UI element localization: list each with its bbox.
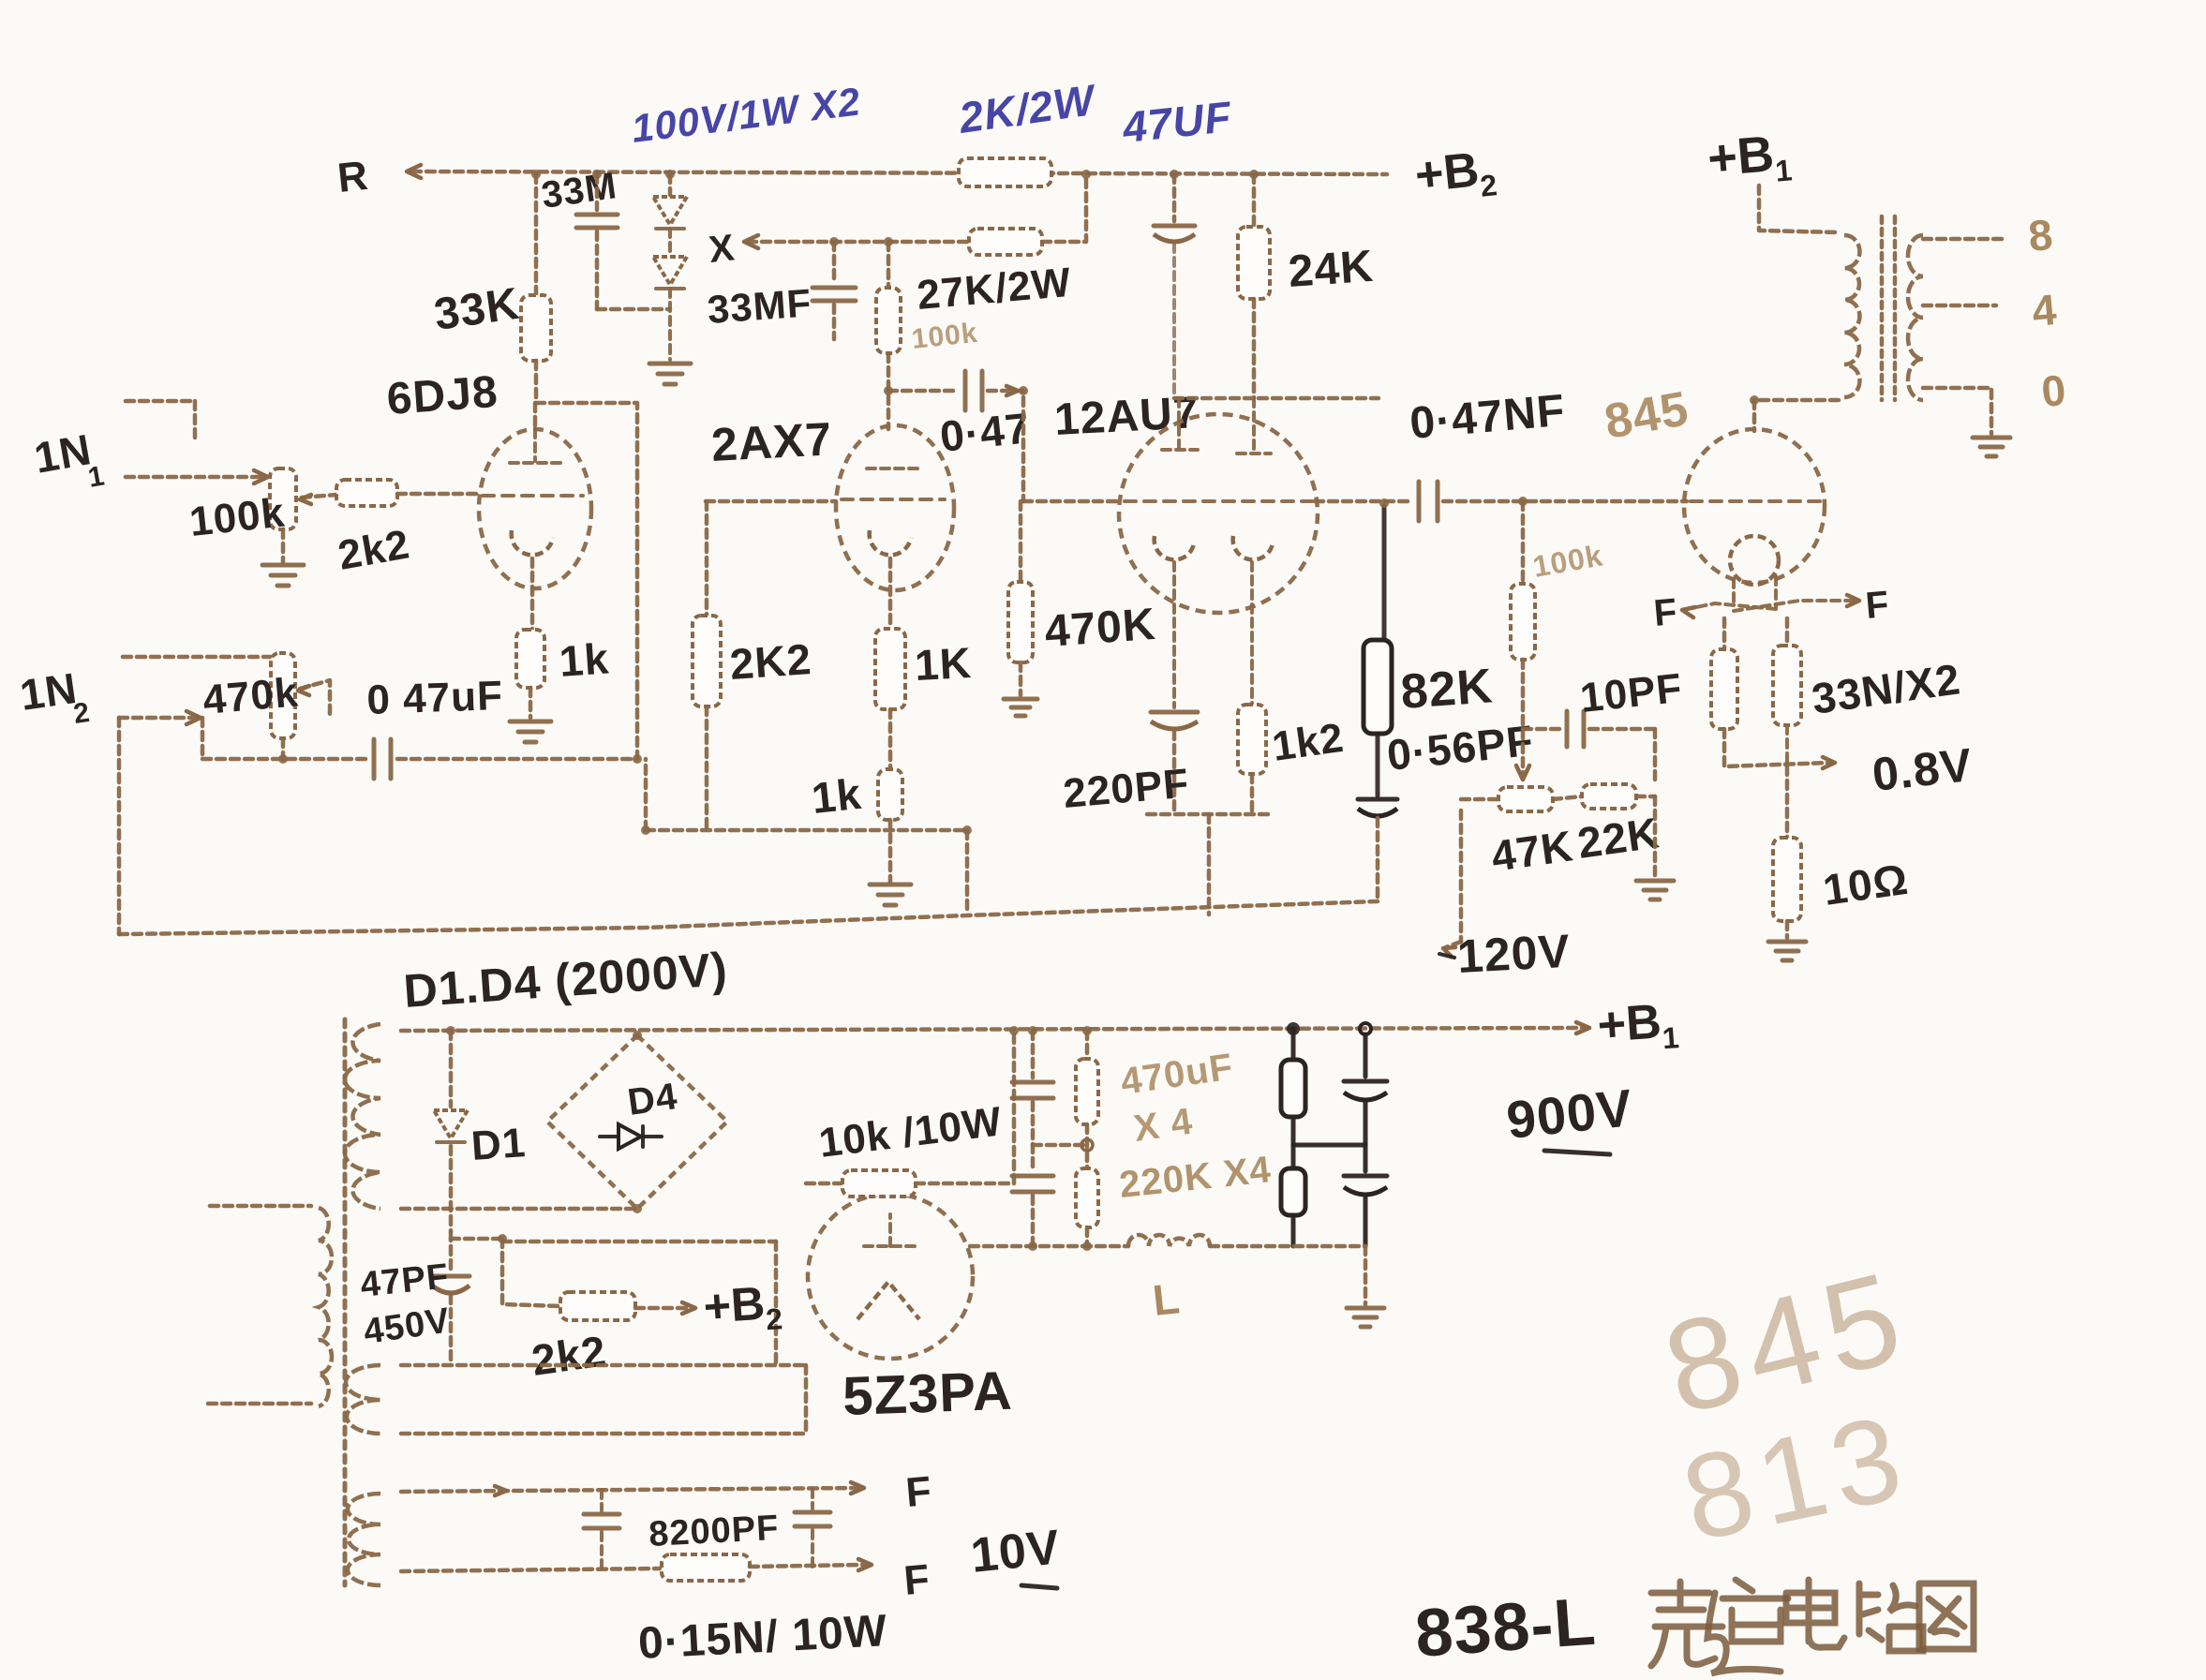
svg-text:L: L bbox=[1151, 1273, 1183, 1325]
wire 6DJ8 cathode bbox=[530, 558, 535, 630]
wire plate node 12AX7 bbox=[887, 353, 891, 429]
wire pot wiper to 2k2 bbox=[302, 495, 336, 498]
12AU7 cathode left bbox=[1155, 536, 1194, 559]
wire mains top bbox=[210, 1204, 311, 1209]
capacitor 33M bbox=[595, 174, 600, 210]
wire 12AU7 grid entry bbox=[1023, 499, 1121, 504]
diode D-b bbox=[653, 257, 687, 285]
capacitor 0.47uF input bbox=[372, 739, 377, 779]
bridge rectifier D1-D4 bbox=[547, 1035, 727, 1209]
845 cathode circle bbox=[1730, 536, 1779, 585]
junction dots on buses bbox=[531, 170, 541, 179]
terminal IN2 bbox=[123, 655, 270, 660]
resistor 2k2 series bbox=[336, 480, 397, 506]
svg-text:470k: 470k bbox=[201, 669, 301, 723]
ground 6DJ8 cathode bbox=[510, 720, 551, 724]
svg-text:10V: 10V bbox=[968, 1520, 1063, 1583]
svg-text:1k: 1k bbox=[558, 633, 611, 686]
diode D-a bbox=[653, 197, 687, 225]
svg-text:2k2: 2k2 bbox=[529, 1326, 609, 1385]
svg-text:8200PF: 8200PF bbox=[648, 1509, 780, 1554]
wire 470k bottom to input wire bbox=[281, 738, 286, 759]
845 grid dashes bbox=[1691, 499, 1822, 503]
potentiometer 100K input bbox=[270, 468, 296, 529]
wire 33K branch from bus bbox=[534, 174, 539, 295]
resistor 2K2 grid bbox=[693, 616, 721, 706]
capacitor 0.56PF black bbox=[1376, 734, 1380, 795]
terminal IN1 bbox=[126, 399, 195, 404]
capacitor 220PF bbox=[1151, 710, 1198, 715]
wire 0.56PF to ground bus bbox=[1376, 818, 1380, 901]
diode inside bridge bbox=[619, 1124, 641, 1149]
wire 5V loop bottom bbox=[401, 1432, 806, 1436]
12AX7 grid dashes bbox=[842, 498, 945, 501]
resistor 220K black chain C bbox=[1287, 1022, 1300, 1035]
wire HV bottom to bridge bbox=[401, 1207, 635, 1212]
wire hum bus to 0.8V bbox=[1724, 729, 1829, 766]
wire 12AX7 cathode chain bbox=[888, 558, 893, 629]
wire ground return bus long bbox=[119, 901, 1378, 934]
resistor 1K lower bbox=[878, 769, 902, 820]
wire cathode bus bbox=[646, 828, 967, 833]
wire tie A-B bbox=[1033, 1143, 1087, 1148]
wire 47uF down to plate rail bbox=[1172, 244, 1176, 398]
svg-text:F: F bbox=[902, 1556, 932, 1604]
svg-text:1N: 1N bbox=[17, 663, 80, 720]
svg-text:1K: 1K bbox=[914, 638, 973, 690]
845 plate lead bbox=[1752, 400, 1757, 431]
svg-text:33MF: 33MF bbox=[706, 280, 812, 332]
inductor mains primary bbox=[319, 1208, 332, 1406]
svg-text:F: F bbox=[904, 1468, 934, 1516]
svg-text:X: X bbox=[707, 227, 737, 271]
svg-text:R: R bbox=[335, 153, 371, 201]
svg-text:D4: D4 bbox=[625, 1076, 680, 1123]
wire filament top F bbox=[401, 1488, 858, 1492]
5Z3 filament bbox=[857, 1282, 919, 1319]
wire 470k wiper bbox=[300, 680, 330, 714]
wire 10K to filter bbox=[916, 1031, 1014, 1183]
wire plate to coupling cap 0.47 bbox=[888, 389, 958, 394]
wire 27K to bus riser bbox=[1042, 174, 1086, 242]
resistor 100K 12AX7 plate load bbox=[887, 242, 891, 288]
resistor 10R cathode sense bbox=[1785, 766, 1790, 838]
6DJ8 plate bbox=[533, 429, 537, 461]
resistor 33K bbox=[521, 295, 551, 361]
inductor choke L bbox=[1128, 1235, 1210, 1246]
svg-text:F: F bbox=[1652, 591, 1679, 634]
wire cap to grid-feed node bbox=[397, 757, 637, 762]
inductor OPT primary bbox=[1844, 235, 1859, 397]
wire 47K left to -120V bbox=[1461, 797, 1498, 802]
svg-text:1N: 1N bbox=[31, 424, 96, 483]
wire pot down arrow bbox=[1521, 660, 1526, 774]
resistor 470K grid leak bbox=[1019, 501, 1023, 582]
12AX7 plate bar bbox=[867, 467, 923, 470]
inductor HV secondary bbox=[345, 1024, 380, 1209]
wire bus to ground bbox=[1364, 1246, 1368, 1304]
wire 1K to ground bbox=[888, 820, 893, 882]
wire cap to 12AU7 grid bbox=[988, 391, 1023, 501]
845 filament leads bbox=[1732, 579, 1736, 607]
inductor filament winding bbox=[348, 1494, 380, 1585]
wire IN2 shield down bbox=[117, 718, 122, 934]
wire pot to ground bbox=[281, 529, 286, 562]
wire cathode local bus bbox=[1147, 812, 1270, 817]
ground 845 cathode bbox=[1768, 940, 1806, 944]
resistor 22K bbox=[1553, 796, 1582, 799]
wire 12AU7 plate rail bbox=[1174, 396, 1379, 401]
resistor 100K feedback pot bbox=[1521, 501, 1526, 584]
wire plate node to grid-feed vertical bbox=[536, 403, 637, 759]
ground 470K bbox=[1019, 662, 1023, 695]
wire 22K to ground bbox=[1636, 795, 1655, 799]
wire 12AX7 grid feed bbox=[706, 499, 836, 504]
svg-text:5Z3PA: 5Z3PA bbox=[842, 1360, 1013, 1427]
svg-text:6DJ8: 6DJ8 bbox=[385, 367, 499, 424]
resistor 27K/2W lower bbox=[969, 229, 1042, 255]
wire plate leads bbox=[1177, 398, 1181, 448]
svg-text:D1: D1 bbox=[470, 1120, 528, 1169]
svg-text:2K2: 2K2 bbox=[728, 634, 813, 689]
wire tap 8 bbox=[1923, 237, 2007, 242]
resistor 33R hum left bbox=[1722, 618, 1727, 649]
wire 2k2 branch bbox=[502, 1239, 560, 1306]
svg-text:0·47: 0·47 bbox=[938, 403, 1033, 461]
6DJ8 grid dashes bbox=[483, 494, 583, 498]
resistor 33R hum right bbox=[1785, 618, 1790, 646]
wire cathode right to 1k2 bbox=[1250, 562, 1254, 705]
wire 2K2 to bus886 bbox=[705, 706, 709, 828]
ground OPT secondary bbox=[1973, 436, 2010, 440]
12AU7 cathode right bbox=[1233, 536, 1273, 559]
wire 33K to 6DJ8 plate bbox=[534, 361, 539, 403]
diode D1 branch bbox=[449, 1031, 454, 1107]
svg-text:8: 8 bbox=[2026, 210, 2055, 260]
svg-text:4: 4 bbox=[2030, 285, 2059, 335]
tube 12AU7 bbox=[1119, 414, 1318, 613]
capacitor 47uF from bus bbox=[1172, 174, 1177, 221]
ground 100K pot bbox=[262, 563, 304, 568]
6DJ8 cathode bbox=[512, 530, 553, 555]
ground PSU bbox=[1347, 1306, 1384, 1311]
resistor 1K cathode bbox=[875, 629, 905, 709]
wire IN2 to input wire bbox=[201, 718, 205, 759]
svg-text:F: F bbox=[1864, 584, 1891, 627]
wire 5V loop right bbox=[804, 1365, 809, 1434]
wire D1 node right bbox=[451, 1237, 502, 1241]
node R output / wire top bus +B2 bbox=[412, 171, 1387, 174]
capacitor 47PF 450V bbox=[449, 1232, 454, 1271]
wire 10R to ground bbox=[1785, 921, 1790, 938]
svg-text:0 47uF: 0 47uF bbox=[366, 673, 504, 723]
wire plate lead 6DJ8 bbox=[533, 403, 538, 429]
svg-text:120V: 120V bbox=[1456, 925, 1573, 983]
wire to 5Z3 plate line bbox=[502, 1240, 776, 1244]
filament arrow left F bbox=[1687, 603, 1776, 609]
resistor 2k2 bias bbox=[560, 1292, 635, 1320]
resistor 1k2 bbox=[1238, 705, 1266, 774]
divider 82K black bbox=[1382, 506, 1387, 640]
capacitor 8200PF left bbox=[600, 1490, 604, 1510]
wire input coupling 0.47uF bbox=[202, 757, 367, 762]
wire PSU lower bus bbox=[970, 1244, 1128, 1249]
svg-text:1k: 1k bbox=[810, 769, 864, 823]
filament arrow right F bbox=[1734, 601, 1854, 611]
svg-text:0: 0 bbox=[2039, 365, 2068, 416]
wire arrow +B2 out bbox=[635, 1306, 690, 1311]
capacitor 33MF bbox=[832, 242, 837, 283]
capacitor 470uF chain A bbox=[1031, 1031, 1036, 1078]
ground 12AX7 cathode bbox=[870, 883, 911, 887]
node X / wire second bus bbox=[744, 235, 758, 248]
svg-text:82K: 82K bbox=[1399, 659, 1495, 720]
svg-text:838-L: 838-L bbox=[1413, 1584, 1599, 1672]
resistor 24K plate load bbox=[1252, 174, 1257, 227]
capacitor 0.47 coupling bbox=[963, 371, 968, 410]
resistor 1k 6DJ8 cathode bbox=[516, 630, 544, 688]
transformer core main bbox=[343, 1019, 348, 1585]
wire 33M cap to diode chain bbox=[597, 307, 670, 312]
wire tie C-D black bbox=[1293, 1143, 1365, 1148]
wire to ground bbox=[529, 688, 533, 718]
inductor OPT secondary bbox=[1908, 235, 1923, 400]
wire filament bottom F bbox=[401, 1568, 660, 1571]
12AX7 cathode bbox=[870, 530, 911, 555]
svg-text:470K: 470K bbox=[1043, 600, 1157, 657]
svg-text:2AX7: 2AX7 bbox=[710, 412, 834, 471]
5Z3 plate bar bbox=[864, 1244, 917, 1248]
wire 5V loop top bbox=[401, 1363, 806, 1368]
wire +B1 to OPT primary bbox=[1759, 186, 1839, 232]
OPT core bbox=[1880, 216, 1885, 400]
wire to 845 grid bbox=[1443, 499, 1687, 504]
capacitor 8200PF right bbox=[811, 1489, 814, 1509]
inductor 5V winding bbox=[346, 1365, 380, 1434]
wire HV top to bus bbox=[401, 1028, 1584, 1031]
resistor 27K/2W upper (in bus) bbox=[959, 158, 1051, 186]
capacitor 470uF black chain D bbox=[1360, 1023, 1371, 1034]
svg-text:0.8V: 0.8V bbox=[1870, 738, 1975, 801]
resistor 47K bbox=[1498, 787, 1553, 811]
capacitor 10PF bbox=[1523, 727, 1561, 732]
ground 22K bbox=[1636, 879, 1674, 884]
svg-text:X 4: X 4 bbox=[1131, 1101, 1196, 1150]
diode chain from bus bbox=[668, 174, 673, 195]
wire tap 4 bbox=[1923, 304, 1996, 308]
wire mains bottom bbox=[208, 1402, 311, 1406]
potentiometer 470k bbox=[271, 653, 295, 738]
ground diode chain bbox=[649, 362, 691, 366]
wire OPT primary to 845 plate bbox=[1754, 398, 1839, 403]
wire cathode left to 220PF bbox=[1172, 562, 1176, 707]
svg-text:24K: 24K bbox=[1287, 242, 1376, 297]
resistor 220K chain B bbox=[1085, 1031, 1090, 1059]
wire tap 0 bbox=[1923, 388, 1991, 434]
wire 2k2 to 6DJ8 grid bbox=[397, 492, 481, 497]
title Chinese characters sheng dao dian lu tu bbox=[1651, 1582, 1722, 1666]
resistor 0.15R/10W bbox=[662, 1554, 750, 1581]
12AU7 grid dashes bbox=[1125, 499, 1312, 503]
wire local bus to ground bus bbox=[1207, 814, 1212, 914]
